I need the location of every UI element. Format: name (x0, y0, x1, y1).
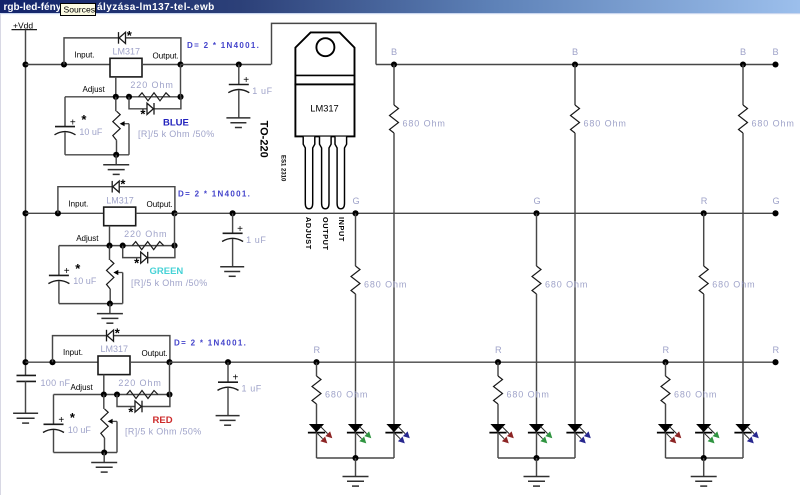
wire R bus to resistor group 1 (316, 362, 318, 376)
svg-text:680 Ohm: 680 Ohm (545, 280, 588, 290)
wire G bus to resistor group 1 (355, 213, 357, 266)
svg-text:G: G (353, 196, 360, 206)
wire adjust rail down to 10 uF (green) (58, 246, 60, 276)
svg-text:+: + (243, 75, 249, 86)
resistor 680 Ohm G group 1 (351, 266, 360, 294)
svg-text:LM317: LM317 (101, 344, 129, 354)
capacitor 10 uF (red) (43, 424, 64, 432)
wire LED R to cathode rail group 3 (665, 433, 667, 458)
wire LED B to cathode rail group 3 (742, 433, 744, 458)
node G bus junction group 2 (533, 210, 539, 216)
window title bar (0, 0, 800, 13)
resistor 220 Ohm (green) (132, 242, 164, 250)
node 1 uF (green) junction (230, 210, 236, 216)
capacitor 100 nF (17, 375, 37, 381)
wire adjust rail (red) (54, 394, 170, 396)
wire B bus to resistor group 1 (393, 65, 395, 106)
svg-text:1 uF: 1 uF (246, 235, 266, 245)
node adjust junction (green) (106, 243, 112, 249)
svg-text:+Vdd: +Vdd (13, 20, 33, 30)
svg-text:+: + (70, 117, 76, 128)
node potentiometer-ground junction (blue) (113, 152, 119, 158)
wire bottom rail (blue) (65, 154, 129, 156)
diode D 1N4001 bypass (red) (107, 330, 114, 342)
node B bus end terminal (772, 61, 778, 67)
node +Vdd / blue input (22, 61, 28, 67)
wire LM317 output (blue) (142, 64, 181, 66)
svg-text:B: B (572, 47, 578, 57)
potentiometer wiper arrow (blue) (120, 121, 129, 126)
svg-text:+: + (58, 415, 64, 426)
svg-text:+: + (237, 224, 243, 235)
wire blue output to riser (181, 64, 272, 66)
node 1 uF (red) junction (225, 359, 231, 365)
svg-text:[R]/5 k Ohm /50%: [R]/5 k Ohm /50% (131, 278, 208, 288)
node G bus junction group 3 (701, 210, 707, 216)
svg-text:R: R (314, 345, 321, 355)
resistor 680 Ohm R group 1 (312, 376, 321, 404)
resistor 680 Ohm B group 3 (739, 105, 748, 133)
node G bus end terminal (772, 210, 778, 216)
wire potentiometer bottom (blue) (116, 140, 118, 155)
node adjust-loop junction (red) (114, 391, 120, 397)
wire resistor to LED B group 3 (742, 133, 744, 424)
svg-text:R: R (495, 345, 502, 355)
wire LED G to cathode rail group 1 (355, 433, 357, 458)
ground 1 uF (blue) (226, 118, 250, 128)
LED G group 3 (695, 424, 719, 443)
svg-text:Output.: Output. (142, 349, 168, 358)
resistor 680 Ohm G group 3 (699, 266, 708, 294)
svg-text:GREEN: GREEN (150, 266, 184, 277)
svg-text:BLUE: BLUE (163, 117, 189, 128)
svg-text:Input.: Input. (75, 51, 95, 60)
svg-text:Adjust: Adjust (83, 85, 106, 94)
svg-text:1 uF: 1 uF (252, 86, 272, 96)
wire to ground (blue) (115, 155, 117, 165)
window left border (0, 14, 2, 495)
LED G group 2 (528, 424, 552, 443)
node B bus junction group 2 (572, 61, 578, 67)
svg-text:R: R (773, 345, 780, 355)
svg-text:220 Ohm: 220 Ohm (118, 378, 161, 388)
svg-text:[R]/5 k Ohm /50%: [R]/5 k Ohm /50% (138, 129, 215, 139)
LED B group 3 (734, 424, 758, 443)
wire LED G to cathode rail group 2 (536, 433, 538, 458)
svg-text:D= 2 * 1N4001.: D= 2 * 1N4001. (174, 339, 247, 348)
wire adjust to potentiometer (green) (109, 246, 111, 260)
diode D 1N4001 bypass (green) (112, 181, 119, 193)
diode D 1N4001 lower (red) (135, 401, 142, 413)
voltage regulator LM317 (green) (104, 207, 136, 226)
TO-220 body (295, 84, 354, 136)
wire cathode rail to ground group 1 (355, 458, 357, 477)
wire resistor to LED G group 2 (536, 294, 538, 424)
resistor 220 Ohm (blue) (139, 93, 171, 101)
svg-text:220 Ohm: 220 Ohm (124, 229, 167, 239)
wire output down to 220 Ohm (blue) (180, 65, 182, 97)
ground LED group 1 (343, 477, 369, 487)
svg-text:680 Ohm: 680 Ohm (752, 119, 795, 129)
wire LED B to cathode rail group 2 (574, 433, 576, 458)
wire 10 uF to bottom rail (red) (53, 430, 55, 453)
potentiometer [R] 5 kOhm (green) (107, 260, 114, 289)
svg-text:B: B (740, 47, 746, 57)
wire LM317 output (red) (130, 361, 170, 363)
resistor 680 Ohm R group 2 (494, 376, 503, 404)
node output junction (blue) (177, 61, 183, 67)
potentiometer [R] 5 kOhm (red) (101, 409, 108, 438)
wire wiper down to bottom rail (blue) (128, 124, 130, 155)
TO-220 OUTPUT pin lead (320, 137, 332, 209)
diode D 1N4001 lower (green) (141, 252, 148, 264)
svg-text:680 Ohm: 680 Ohm (403, 119, 446, 129)
wire down to 1 uF (red) (227, 362, 229, 382)
wire +Vdd rail to LM317 input (blue) (26, 64, 111, 66)
node output-to-adjust junction (red) (166, 391, 172, 397)
svg-text:B: B (773, 47, 779, 57)
wire +Vdd underline (12, 29, 38, 31)
LED G group 1 (347, 424, 371, 443)
TO-220 package tab (295, 32, 354, 84)
svg-text:D= 2 * 1N4001.: D= 2 * 1N4001. (178, 190, 251, 199)
capacitor 1 uF (blue) (228, 85, 249, 93)
wire B bus (376, 64, 776, 66)
wire G bus to resistor group 2 (536, 213, 538, 266)
svg-text:TO-220: TO-220 (258, 121, 270, 158)
node input junction (green) (55, 210, 61, 216)
svg-text:Adjust: Adjust (76, 234, 99, 243)
node B bus junction group 3 (740, 61, 746, 67)
node +Vdd / red input (22, 359, 28, 365)
capacitor 10 uF (blue) (55, 127, 76, 135)
svg-text:rgb-led-fény: rgb-led-fény (4, 2, 62, 13)
wire R bus to resistor group 3 (665, 362, 667, 376)
svg-text:ályzása-lm137-tel-.ewb: ályzása-lm137-tel-.ewb (97, 2, 215, 13)
svg-text:Output.: Output. (147, 200, 173, 209)
wire resistor to LED G group 1 (355, 294, 357, 424)
wire 1 uF (red) to ground (227, 388, 229, 416)
voltage regulator LM317 (red) (98, 356, 130, 375)
wire potentiometer bottom (red) (104, 438, 106, 453)
diode D 1N4001 lower (blue) (147, 103, 154, 115)
svg-text:ADJUST: ADJUST (304, 217, 313, 250)
wire resistor to LED R group 2 (497, 404, 499, 424)
node adjust junction (blue) (113, 94, 119, 100)
wire resistor to LED R group 3 (665, 404, 667, 424)
potentiometer wiper arrow (green) (113, 270, 122, 275)
TO-220 INPUT pin lead (335, 137, 347, 209)
wire adjust rail down to 10 uF (red) (53, 395, 55, 425)
diode D 1N4001 bypass (blue) (119, 32, 126, 44)
node G bus junction group 1 (352, 210, 358, 216)
node output junction (red) (166, 359, 172, 365)
wire cathode rail group 1 (317, 457, 395, 459)
svg-text:LM317: LM317 (310, 104, 338, 114)
wire adjust rail (green) (59, 245, 175, 247)
wire 10 uF to bottom rail (blue) (64, 132, 66, 155)
Sources tooltip (61, 4, 96, 16)
svg-text:10 uF: 10 uF (73, 276, 97, 286)
wire lower diode loop (blue) (129, 97, 181, 109)
node R bus junction group 1 (313, 359, 319, 365)
wire +Vdd rail to LM317 input (green) (26, 212, 104, 214)
svg-text:Adjust: Adjust (71, 383, 94, 392)
LED B group 1 (385, 424, 409, 443)
svg-text:G: G (534, 196, 541, 206)
svg-text:Input.: Input. (63, 348, 83, 357)
svg-text:680 Ohm: 680 Ohm (712, 280, 755, 290)
node R bus junction group 2 (495, 359, 501, 365)
wire down to 1 uF (green) (232, 213, 234, 233)
svg-text:680 Ohm: 680 Ohm (584, 119, 627, 129)
LED R group 2 (489, 424, 513, 443)
svg-text:680 Ohm: 680 Ohm (364, 280, 407, 290)
node output-to-adjust junction (green) (171, 243, 177, 249)
svg-text:+: + (233, 373, 239, 384)
wire potentiometer bottom (green) (109, 289, 111, 304)
wire adjust pin stub (blue) (115, 77, 117, 97)
LED R group 1 (308, 424, 332, 443)
wire down to 1 uF (blue) (238, 65, 240, 85)
voltage regulator LM317 (blue) (110, 58, 142, 77)
wire adjust pin stub (green) (109, 226, 111, 246)
wire R bus to resistor group 2 (497, 362, 499, 376)
svg-text:680 Ohm: 680 Ohm (507, 390, 550, 400)
wire cathode rail group 2 (498, 457, 575, 459)
resistor 680 Ohm G group 2 (532, 266, 541, 294)
svg-text:OUTPUT: OUTPUT (321, 217, 330, 251)
LED R group 3 (657, 424, 681, 443)
wire resistor to LED B group 1 (393, 133, 395, 424)
wire 1 uF (blue) to ground (238, 90, 240, 118)
wire LED B to cathode rail group 1 (393, 433, 395, 458)
node +Vdd / green input (22, 210, 28, 216)
wire to ground (green) (109, 304, 111, 314)
wire output down to 220 Ohm (green) (174, 213, 176, 245)
capacitor 1 uF (green) (222, 233, 243, 241)
svg-text:B: B (391, 47, 397, 57)
wire LED R to cathode rail group 2 (497, 433, 499, 458)
capacitor 10 uF (green) (48, 275, 69, 283)
node output junction (green) (171, 210, 177, 216)
wire bottom rail (green) (59, 303, 123, 305)
ground 100 nF (13, 413, 38, 423)
wire cathode rail group 3 (666, 457, 744, 459)
svg-text:10 uF: 10 uF (79, 127, 103, 137)
wire cathode rail to ground group 2 (536, 458, 538, 477)
node B bus junction group 1 (391, 61, 397, 67)
node adjust junction (red) (101, 391, 107, 397)
node adjust-loop junction (blue) (126, 94, 132, 100)
wire lower diode loop (red) (117, 395, 170, 407)
node output-to-adjust junction (blue) (177, 94, 183, 100)
node cathode junction group 1 (352, 455, 358, 461)
wire bypass diode loop (green) (58, 187, 175, 214)
wire adjust rail down to 10 uF (blue) (64, 97, 66, 127)
svg-text:[R]/5 k Ohm /50%: [R]/5 k Ohm /50% (125, 427, 202, 437)
wire output down to 220 Ohm (red) (169, 362, 171, 394)
resistor 680 Ohm B group 2 (571, 105, 580, 133)
wire wiper down to bottom rail (red) (116, 421, 118, 452)
svg-text:Output.: Output. (153, 51, 179, 60)
svg-text:Sources: Sources (64, 5, 96, 15)
svg-text:220 Ohm: 220 Ohm (130, 80, 173, 90)
wire lower diode loop (green) (123, 246, 175, 258)
svg-text:10 uF: 10 uF (68, 425, 92, 435)
wire adjust to potentiometer (red) (103, 395, 105, 409)
svg-text:R: R (701, 196, 708, 206)
wire B bus to resistor group 2 (574, 65, 576, 106)
TO-220 tab lower line (295, 74, 354, 76)
ground LED group 2 (524, 477, 550, 487)
wire +Vdd vertical rail (25, 30, 27, 376)
node potentiometer-ground junction (red) (101, 449, 107, 455)
ground (blue) (103, 165, 129, 175)
node input junction (blue) (61, 61, 67, 67)
wire G bus to resistor group 3 (703, 213, 705, 266)
ground LED group 3 (691, 477, 717, 487)
wire +Vdd rail to LM317 input (red) (26, 361, 99, 363)
svg-text:+: + (64, 266, 70, 277)
wire bypass diode loop (blue) (64, 38, 181, 65)
wire LED R to cathode rail group 1 (316, 433, 318, 458)
wire adjust pin stub (red) (103, 375, 105, 395)
wire cathode rail to ground group 3 (703, 458, 705, 477)
svg-text:LM317: LM317 (106, 195, 134, 205)
wire bypass diode loop (red) (53, 336, 170, 363)
resistor 220 Ohm (red) (127, 391, 159, 399)
wire LED G to cathode rail group 3 (703, 433, 705, 458)
ground (green) (97, 314, 123, 324)
LED B group 2 (566, 424, 590, 443)
TO-220 mounting hole (316, 38, 334, 56)
node cathode junction group 2 (533, 455, 539, 461)
node adjust-loop junction (green) (120, 243, 126, 249)
svg-text:INPUT: INPUT (337, 217, 346, 242)
node potentiometer-ground junction (green) (107, 301, 113, 307)
wire resistor to LED B group 2 (574, 133, 576, 424)
wire to ground (red) (103, 453, 105, 463)
capacitor 1 uF (red) (218, 382, 239, 390)
resistor 680 Ohm R group 3 (661, 376, 670, 404)
potentiometer wiper arrow (red) (108, 419, 117, 424)
node cathode junction group 3 (701, 455, 707, 461)
wire 1 uF (green) to ground (232, 239, 234, 267)
TO-220 ADJUST pin lead (303, 137, 315, 209)
wire G bus (175, 212, 776, 214)
wire LM317 output (green) (136, 212, 175, 214)
svg-text:1 uF: 1 uF (242, 384, 262, 394)
wire blue riser over TO-220 (272, 23, 377, 64)
wire 10 uF to bottom rail (green) (58, 281, 60, 304)
wire 100 nF to ground (25, 381, 27, 413)
node R bus junction group 3 (662, 359, 668, 365)
wire resistor to LED G group 3 (703, 294, 705, 424)
svg-text:D= 2 * 1N4001.: D= 2 * 1N4001. (187, 41, 260, 50)
wire wiper down to bottom rail (green) (122, 273, 124, 304)
potentiometer [R] 5 kOhm (blue) (113, 111, 120, 140)
node input junction (red) (49, 359, 55, 365)
wire resistor to LED R group 1 (316, 404, 318, 424)
ground 1 uF (green) (220, 267, 244, 277)
ground 1 uF (red) (216, 416, 240, 426)
svg-text:LM317: LM317 (113, 47, 141, 57)
svg-text:ES1 2310: ES1 2310 (280, 155, 286, 182)
wire adjust rail (blue) (65, 96, 181, 98)
resistor 680 Ohm B group 1 (390, 105, 399, 133)
wire R bus (170, 361, 777, 363)
wire bottom rail (red) (54, 452, 118, 454)
svg-text:R: R (663, 345, 670, 355)
svg-text:680 Ohm: 680 Ohm (674, 390, 717, 400)
ground (red) (91, 463, 117, 473)
svg-text:100 nF: 100 nF (41, 378, 71, 388)
node 1 uF (blue) junction (236, 61, 242, 67)
svg-text:Input.: Input. (68, 199, 88, 208)
svg-text:RED: RED (153, 415, 173, 426)
svg-text:G: G (773, 196, 780, 206)
wire adjust to potentiometer (blue) (115, 97, 117, 111)
node R bus end terminal (772, 359, 778, 365)
wire B bus to resistor group 3 (742, 65, 744, 106)
svg-text:680 Ohm: 680 Ohm (325, 390, 368, 400)
